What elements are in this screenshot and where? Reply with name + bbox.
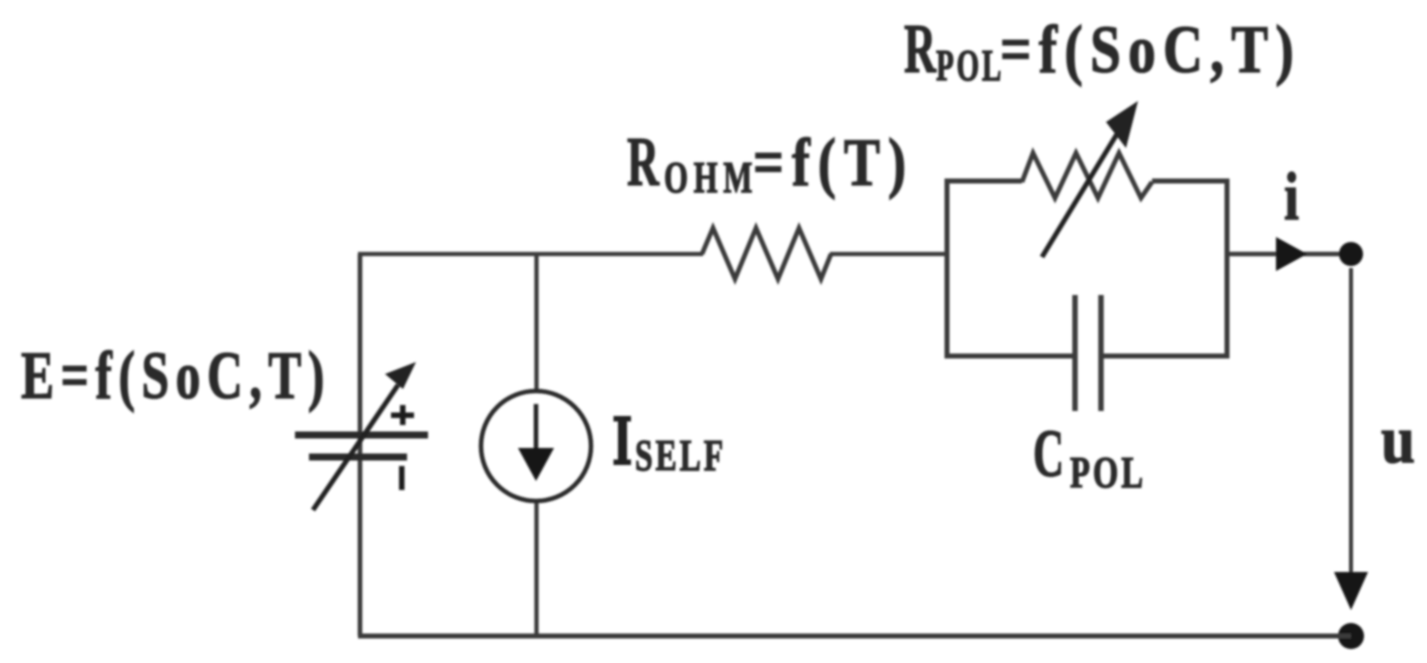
polarity plus mark	[391, 405, 414, 425]
label I_SELF	[614, 416, 727, 480]
RC parallel box outline	[947, 181, 1227, 356]
current source I_SELF (circle with down arrow)	[481, 391, 591, 501]
svg-text:OHM: OHM	[664, 153, 758, 202]
wire: left vertical branch (EMF branch)	[358, 254, 363, 636]
wire: top horizontal from left branch to R_OHM	[358, 252, 703, 256]
svg-text:POL: POL	[1070, 448, 1146, 497]
label C_POL	[1033, 415, 1146, 497]
label i (current)	[1284, 158, 1299, 234]
label E=f(SoC,T)	[21, 337, 331, 413]
svg-text:=f(SoC,T): =f(SoC,T)	[1000, 11, 1301, 87]
svg-text:R: R	[627, 124, 660, 201]
variable-resistor arrow across R_POL	[1042, 101, 1138, 257]
svg-text:i: i	[1284, 158, 1299, 234]
svg-text:POL: POL	[936, 41, 1004, 90]
polarity minus tick	[399, 466, 405, 490]
svg-text:C: C	[1033, 415, 1064, 491]
wire: box to output node with current arrowhead	[1227, 237, 1340, 271]
svg-text:=f(T): =f(T)	[753, 124, 914, 200]
label R_POL=f(SoC,T)	[904, 11, 1301, 90]
wire: current source branch vertical	[534, 254, 538, 636]
wire: R_OHM to RC box	[830, 252, 947, 256]
svg-text:u: u	[1381, 401, 1415, 477]
svg-text:E=f(SoC,T): E=f(SoC,T)	[21, 337, 331, 413]
wire: bottom horizontal return	[358, 634, 1351, 639]
label u (voltage)	[1381, 401, 1415, 477]
node: bottom right terminal dot	[1338, 623, 1364, 649]
wire: u measurement arrow (vertical, arrow down)	[1334, 268, 1368, 610]
variable EMF source E (bars + arrow) on left branch	[295, 362, 428, 510]
label R_OHM=f(T)	[627, 124, 914, 202]
svg-text:SELF: SELF	[635, 431, 726, 480]
node: output terminal dot (top right)	[1339, 242, 1363, 266]
capacitor C_POL (plates on box bottom edge)	[1075, 295, 1101, 411]
resistor R_OHM (zigzag)	[702, 228, 831, 279]
svg-text:R: R	[904, 11, 937, 88]
resistor R_POL (zigzag on box top edge)	[1022, 153, 1152, 198]
